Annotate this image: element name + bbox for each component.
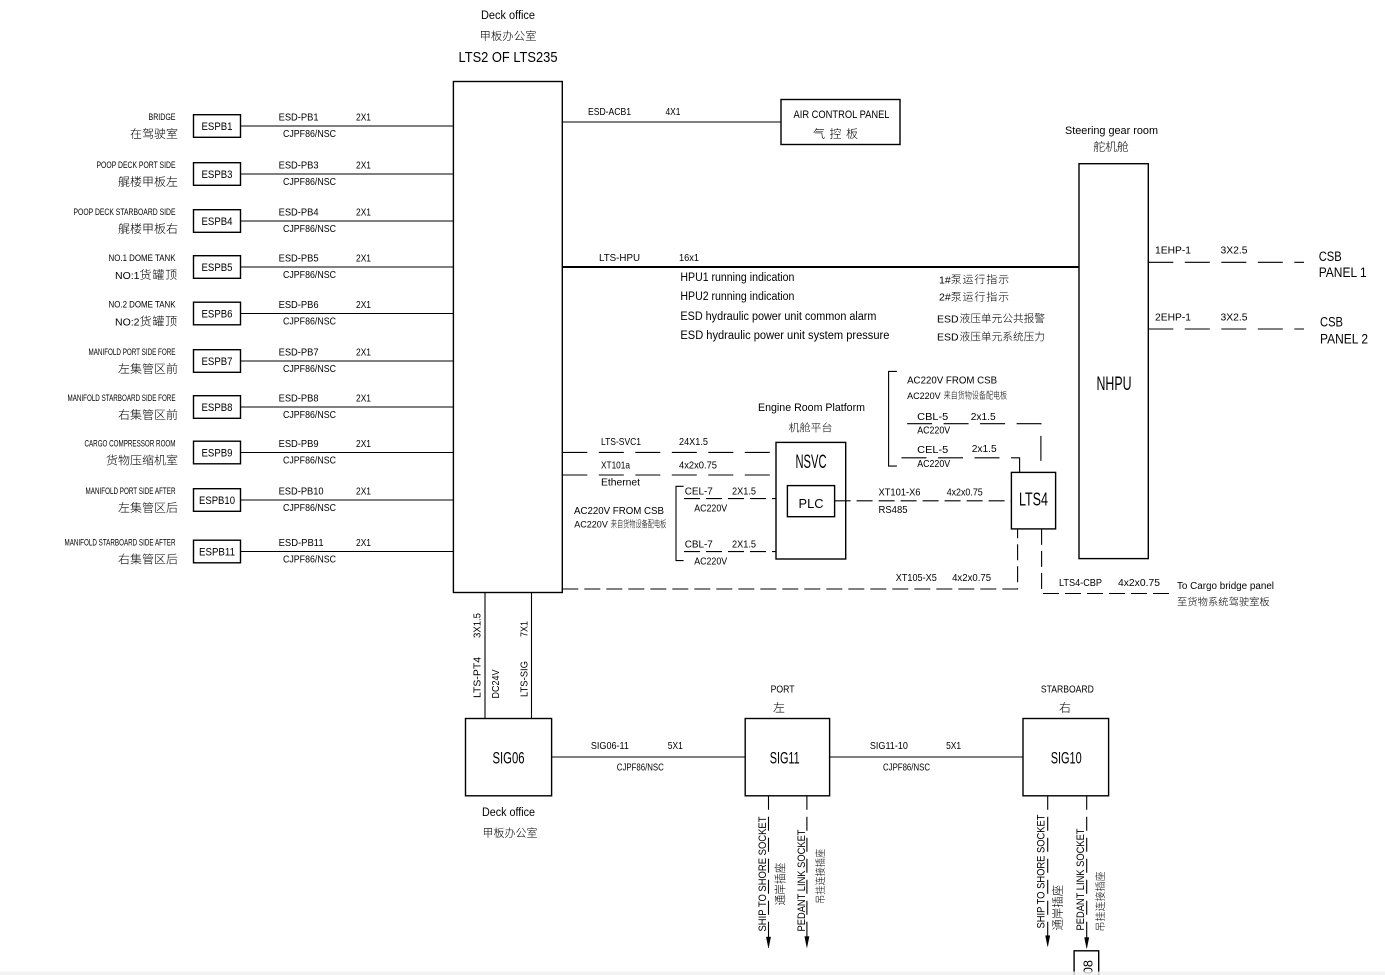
svg-text:ESD: ESD [937, 313, 959, 325]
junction box SIG11 [745, 719, 829, 796]
wire LTS4-CBP [1042, 529, 1173, 594]
label location BRIDGE [131, 112, 178, 139]
bracket AC220V group at NSVC [676, 486, 684, 560]
label cable ESD-PB7 2X1 CJPF86/NSC [279, 348, 372, 375]
junction box SIG10 [1023, 719, 1109, 796]
label HPU signal list [680, 272, 889, 342]
svg-text:LTS-HPU: LTS-HPU [599, 252, 640, 264]
svg-text:AC220V: AC220V [694, 503, 727, 515]
label PORT [771, 684, 795, 713]
wire ESD-ACB1 [562, 121, 781, 123]
svg-text:2x1.5: 2x1.5 [972, 443, 997, 455]
svg-text:CJPF86/NSC: CJPF86/NSC [283, 270, 336, 281]
label cable CBL-7 2X1.5 AC220V [685, 539, 756, 568]
svg-text:SHIP TO SHORE SOCKET: SHIP TO SHORE SOCKET [757, 816, 769, 931]
label cable XT105-X5 4x2x0.75 [896, 572, 991, 584]
label location MANIFOLD PORT SIDE AFTER [86, 486, 178, 513]
svg-text:CEL-7: CEL-7 [685, 486, 713, 498]
svg-text:SIG10: SIG10 [1051, 749, 1082, 767]
label cable 1EHP-1 3X2.5 [1155, 245, 1248, 257]
svg-text:CBL-7: CBL-7 [685, 539, 713, 551]
svg-text:ESPB9: ESPB9 [202, 448, 233, 460]
label location NO.1 DOME TANK [109, 253, 177, 282]
svg-text:ESD-PB3: ESD-PB3 [279, 161, 319, 172]
wire CBL-5 [907, 424, 1041, 473]
svg-text:NO:1: NO:1 [115, 270, 140, 282]
label location NO.2 DOME TANK [109, 300, 177, 329]
pushbutton ESPB9 [194, 441, 241, 464]
label location MANIFOLD STARBOARD SIDE AFTER [65, 538, 178, 565]
svg-text:ESD-PB7: ESD-PB7 [279, 348, 319, 359]
svg-text:MANIFOLD STARBOARD SIDE AFTER: MANIFOLD STARBOARD SIDE AFTER [65, 538, 176, 549]
wire ESD-PB4 [241, 220, 454, 222]
svg-text:DC24V: DC24V [490, 670, 502, 699]
pushbutton ESPB1 [194, 115, 241, 138]
svg-text:CJPF86/NSC: CJPF86/NSC [283, 410, 336, 421]
wire XT105-X5 [562, 529, 1017, 589]
svg-text:CJPF86/NSC: CJPF86/NSC [283, 555, 336, 566]
svg-text:ESD-PB10: ESD-PB10 [279, 487, 324, 498]
svg-text:2X1.5: 2X1.5 [732, 539, 756, 551]
label AC220V FROM CSB at LTS4 [907, 375, 1007, 401]
svg-text:4x2x0.75: 4x2x0.75 [947, 487, 983, 499]
svg-text:AC220V: AC220V [907, 391, 941, 401]
svg-text:To Cargo bridge panel: To Cargo bridge panel [1177, 581, 1274, 592]
svg-text:SHIP TO SHORE SOCKET: SHIP TO SHORE SOCKET [1036, 814, 1048, 928]
svg-text:4x2x0.75: 4x2x0.75 [1118, 577, 1160, 589]
svg-text:CJPF86/NSC: CJPF86/NSC [283, 503, 336, 514]
svg-text:LTS-SVC1: LTS-SVC1 [601, 436, 641, 448]
svg-text:AC220V: AC220V [694, 556, 727, 568]
svg-text:MANIFOLD PORT SIDE AFTER: MANIFOLD PORT SIDE AFTER [86, 486, 176, 497]
svg-text:ESD: ESD [937, 332, 959, 344]
label cable ESD-PB6 2X1 CJPF86/NSC [279, 300, 372, 327]
svg-text:POOP DECK STARBOARD SIDE: POOP DECK STARBOARD SIDE [74, 207, 176, 218]
label cable XT101-X6 4x2x0.75 RS485 [879, 487, 983, 517]
label cable ESD-PB1 2X1 CJPF86/NSC [279, 113, 372, 140]
label HPU signal list chinese [937, 274, 1044, 343]
label cable LTS-HPU 16x1 [599, 252, 699, 264]
label cable LTS-SVC1 24X1.5 [601, 436, 708, 448]
svg-text:HPU2 running indication: HPU2 running indication [680, 291, 794, 303]
pushbutton ESPB11 [194, 540, 241, 563]
label cable ESD-ACB1 4X1 [588, 106, 681, 118]
wire CBL-7 [684, 551, 776, 553]
svg-text:2x1.5: 2x1.5 [971, 411, 996, 423]
label Engine Room Platform [758, 402, 865, 432]
wire ship-to-shore socket at SIG11 [768, 796, 770, 928]
pushbutton ESPB5 [194, 256, 241, 279]
svg-text:ESPB8: ESPB8 [202, 402, 233, 414]
svg-text:CEL-5: CEL-5 [917, 444, 948, 456]
label Deck office LTS2 title [459, 10, 558, 66]
svg-text:XT101a: XT101a [601, 459, 630, 471]
svg-text:RS485: RS485 [879, 504, 908, 516]
bracket AC220V group at LTS4 [889, 371, 897, 466]
svg-text:PANEL 2: PANEL 2 [1320, 331, 1368, 346]
svg-text:NO:2: NO:2 [115, 317, 140, 329]
svg-text:NHPU: NHPU [1097, 374, 1132, 395]
label cable ESD-PB11 2X1 CJPF86/NSC [279, 538, 372, 565]
svg-text:ESD-PB4: ESD-PB4 [279, 208, 319, 219]
label cable ESD-PB4 2X1 CJPF86/NSC [279, 208, 372, 235]
svg-text:ESD-PB11: ESD-PB11 [279, 538, 324, 549]
svg-text:1#: 1# [939, 274, 951, 286]
svg-text:XT105-X5: XT105-X5 [896, 572, 937, 584]
label cable CEL-5 2x1.5 AC220V [917, 443, 997, 470]
label cable CEL-7 2X1.5 AC220V [685, 486, 756, 515]
svg-text:2X1: 2X1 [356, 300, 371, 311]
svg-text:2X1: 2X1 [356, 113, 371, 124]
wire CEL-5 [902, 458, 1020, 473]
svg-text:ESD hydraulic power unit syste: ESD hydraulic power unit system pressure [680, 330, 889, 342]
wire pedant link socket at SIG11 [806, 796, 808, 928]
wire ship-to-shore socket at SIG10 [1047, 796, 1049, 928]
svg-text:ESPB4: ESPB4 [202, 216, 233, 228]
svg-text:HPU1 running indication: HPU1 running indication [680, 272, 794, 284]
wire CEL-7 [684, 498, 776, 500]
svg-text:CSB: CSB [1320, 315, 1343, 330]
label cable ESD-PB5 2X1 CJPF86/NSC [279, 254, 372, 281]
svg-text:ESPB11: ESPB11 [199, 547, 235, 559]
svg-text:CBL-5: CBL-5 [917, 411, 948, 423]
svg-text:AC220V: AC220V [917, 425, 950, 437]
pushbutton ESPB6 [194, 302, 241, 325]
wire pedant link socket at SIG10 [1086, 796, 1088, 928]
svg-text:CJPF86/NSC: CJPF86/NSC [617, 762, 664, 774]
pushbutton ESPB3 [194, 163, 241, 186]
svg-text:ESPB1: ESPB1 [202, 121, 233, 133]
label PEDANT LINK SOCKET at SIG10 [1075, 828, 1105, 930]
svg-text:CJPF86/NSC: CJPF86/NSC [283, 224, 336, 235]
svg-text:NSVC: NSVC [796, 452, 827, 473]
svg-text:ESD-PB1: ESD-PB1 [279, 113, 319, 124]
svg-text:CJPF86/NSC: CJPF86/NSC [283, 177, 336, 188]
wire ESD-PB3 [241, 173, 454, 175]
svg-text:AC220V: AC220V [574, 520, 608, 530]
wire ESD-PB9 [241, 452, 454, 454]
wire ESD-PB7 [241, 360, 454, 362]
svg-text:ESPB10: ESPB10 [199, 495, 235, 507]
svg-text:AC220V FROM CSB: AC220V FROM CSB [574, 505, 664, 517]
wire SIG11-10 [830, 756, 1023, 758]
label cable ESD-PB10 2X1 CJPF86/NSC [279, 487, 372, 514]
label cable LTS-SIG 7X1 [519, 621, 531, 697]
wire 1EHP-1 [1148, 261, 1304, 263]
svg-text:2X1: 2X1 [356, 394, 371, 405]
svg-text:Deck office: Deck office [481, 10, 535, 22]
svg-text:ESD-PB6: ESD-PB6 [279, 300, 319, 311]
wire ESD-PB10 [241, 499, 454, 501]
svg-text:ESPB5: ESPB5 [202, 262, 233, 274]
bottom screenshot edge band [0, 972, 1385, 975]
svg-text:PANEL 1: PANEL 1 [1319, 265, 1367, 280]
svg-text:MANIFOLD STARBOARD SIDE FORE: MANIFOLD STARBOARD SIDE FORE [68, 393, 176, 404]
svg-text:PEDANT LINK SOCKET: PEDANT LINK SOCKET [1075, 828, 1087, 930]
node To Cargo bridge panel [1177, 581, 1274, 606]
svg-text:5X1: 5X1 [946, 740, 961, 752]
svg-text:3X2.5: 3X2.5 [1221, 311, 1248, 323]
svg-text:XT101-X6: XT101-X6 [879, 487, 921, 499]
svg-text:POOP DECK PORT SIDE: POOP DECK PORT SIDE [97, 160, 176, 171]
label cable CBL-5 2x1.5 AC220V [917, 411, 996, 437]
svg-text:MANIFOLD PORT SIDE FORE: MANIFOLD PORT SIDE FORE [89, 347, 176, 358]
svg-text:AC220V: AC220V [917, 458, 950, 470]
label location CARGO COMPRESSOR ROOM [85, 439, 178, 466]
wire ESD-PB11 [241, 551, 454, 553]
svg-text:AC220V FROM CSB: AC220V FROM CSB [907, 375, 997, 387]
label AC220V FROM CSB at NSVC [574, 505, 666, 530]
wire SIG06-11 [552, 756, 746, 758]
svg-text:LTS2 OF LTS235: LTS2 OF LTS235 [459, 49, 558, 66]
svg-text:PORT: PORT [771, 684, 795, 696]
svg-text:Steering gear room: Steering gear room [1065, 125, 1158, 137]
svg-text:3X1.5: 3X1.5 [472, 613, 484, 638]
svg-text:NO.1 DOME TANK: NO.1 DOME TANK [109, 253, 177, 264]
label Deck office at SIG06 [482, 807, 537, 838]
junction box SIG06 [466, 719, 552, 796]
svg-text:LTS-PT4: LTS-PT4 [472, 657, 484, 698]
module PLC [787, 486, 834, 517]
pushbutton ESPB7 [194, 350, 241, 373]
label location MANIFOLD STARBOARD SIDE FORE [68, 393, 178, 420]
cabinet NSVC [776, 442, 846, 559]
svg-text:5X1: 5X1 [668, 740, 683, 752]
label STARBOARD [1041, 684, 1094, 713]
svg-text:7X1: 7X1 [519, 621, 531, 637]
label cable LTS-PT4 3X1.5 DC24V [472, 613, 503, 699]
svg-text:LTS-SIG: LTS-SIG [519, 661, 531, 697]
svg-text:CJPF86/NSC: CJPF86/NSC [283, 317, 336, 328]
svg-text:ESPB3: ESPB3 [202, 169, 233, 181]
wire ESD-PB5 [241, 266, 454, 268]
svg-text:LTS4: LTS4 [1019, 490, 1048, 510]
svg-text:4X1: 4X1 [666, 106, 681, 118]
svg-text:2X1: 2X1 [356, 348, 371, 359]
svg-text:PLC: PLC [799, 496, 824, 511]
svg-text:SIG11: SIG11 [770, 749, 800, 767]
svg-text:Ethernet: Ethernet [601, 477, 640, 489]
wire ESD-PB6 [241, 313, 454, 315]
wire XT101-X6 RS485 [835, 500, 1012, 502]
svg-text:CARGO COMPRESSOR ROOM: CARGO COMPRESSOR ROOM [85, 439, 176, 450]
svg-text:SIG11-10: SIG11-10 [870, 740, 908, 752]
svg-text:2X1.5: 2X1.5 [732, 486, 756, 498]
label cable SIG06-11 5X1 CJPF86/NSC [591, 740, 683, 774]
svg-text:ESD-PB8: ESD-PB8 [279, 394, 319, 405]
label PEDANT LINK SOCKET at SIG11 [796, 829, 825, 931]
label cable SIG11-10 5X1 CJPF86/NSC [870, 740, 961, 774]
wire LTS-SVC1 [562, 451, 776, 453]
svg-text:4x2x0.75: 4x2x0.75 [679, 459, 717, 471]
label cable LTS4-CBP 4x2x0.75 [1059, 577, 1160, 589]
svg-text:CJPF86/NSC: CJPF86/NSC [283, 129, 336, 140]
label cable ESD-PB8 2X1 CJPF86/NSC [279, 394, 372, 421]
wire LTS-SIG [531, 593, 533, 719]
svg-text:NO.2 DOME TANK: NO.2 DOME TANK [109, 300, 177, 311]
svg-text:ESD-ACB1: ESD-ACB1 [588, 106, 631, 118]
label Steering gear room [1065, 125, 1158, 152]
svg-text:AIR CONTROL PANEL: AIR CONTROL PANEL [794, 109, 890, 121]
svg-text:2EHP-1: 2EHP-1 [1155, 311, 1191, 323]
svg-text:1EHP-1: 1EHP-1 [1155, 245, 1191, 257]
svg-text:ESPB6: ESPB6 [202, 309, 233, 321]
svg-text:ESD-PB5: ESD-PB5 [279, 254, 319, 265]
svg-text:3X2.5: 3X2.5 [1221, 245, 1248, 257]
svg-text:PEDANT LINK SOCKET: PEDANT LINK SOCKET [796, 829, 808, 931]
label SHIP TO SHORE SOCKET at SIG11 [757, 816, 785, 931]
label location MANIFOLD PORT SIDE FORE [89, 347, 178, 374]
svg-text:CJPF86/NSC: CJPF86/NSC [883, 762, 930, 774]
label cable XT101a 4x2x0.75 Ethernet [601, 459, 717, 488]
svg-text:Deck office: Deck office [482, 807, 535, 819]
svg-text:SIG06: SIG06 [493, 749, 525, 767]
label cable 2EHP-1 3X2.5 [1155, 311, 1248, 323]
label location POOP DECK STARBOARD SIDE [74, 207, 178, 234]
wire LTS-HPU [562, 266, 1079, 268]
wire 2EHP-1 [1148, 328, 1304, 330]
label cable ESD-PB9 2X1 CJPF86/NSC [279, 439, 372, 466]
cabinet NHPU [1079, 164, 1148, 559]
svg-text:Engine Room Platform: Engine Room Platform [758, 402, 865, 414]
svg-text:2X1: 2X1 [356, 439, 371, 450]
svg-text:CSB: CSB [1319, 249, 1342, 264]
pushbutton ESPB8 [194, 396, 241, 419]
svg-text:2X1: 2X1 [356, 161, 371, 172]
cabinet LTS2 [453, 82, 562, 593]
label cable ESD-PB3 2X1 CJPF86/NSC [279, 161, 372, 188]
svg-text:CJPF86/NSC: CJPF86/NSC [283, 456, 336, 467]
pushbutton ESPB4 [194, 210, 241, 233]
svg-text:LTS4-CBP: LTS4-CBP [1059, 577, 1102, 589]
label SHIP TO SHORE SOCKET at SIG10 [1036, 814, 1063, 930]
svg-text:2X1: 2X1 [356, 208, 371, 219]
svg-text:SIG06-11: SIG06-11 [591, 740, 629, 752]
junction box LTS4 [1011, 472, 1055, 529]
pushbutton ESPB10 [194, 489, 241, 512]
svg-text:2#: 2# [939, 292, 951, 304]
wire ESD-PB8 [241, 406, 454, 408]
svg-text:ESD-PB9: ESD-PB9 [279, 439, 319, 450]
svg-text:CJPF86/NSC: CJPF86/NSC [283, 364, 336, 375]
svg-text:BRIDGE: BRIDGE [149, 112, 176, 123]
svg-text:ESD hydraulic power unit commo: ESD hydraulic power unit common alarm [680, 311, 876, 323]
wire XT101a Ethernet [562, 474, 776, 476]
svg-text:24X1.5: 24X1.5 [679, 436, 708, 448]
svg-text:16x1: 16x1 [679, 252, 699, 264]
wire ESD-PB1 [241, 125, 454, 127]
svg-text:4x2x0.75: 4x2x0.75 [952, 572, 991, 584]
svg-text:STARBOARD: STARBOARD [1041, 684, 1094, 696]
panel AIR CONTROL PANEL [781, 100, 900, 145]
svg-text:2X1: 2X1 [356, 254, 371, 265]
node CSB PANEL 2 [1320, 315, 1368, 347]
junction box SIG08 [1074, 951, 1099, 975]
svg-text:2X1: 2X1 [356, 538, 371, 549]
svg-text:2X1: 2X1 [356, 487, 371, 498]
node CSB PANEL 1 [1319, 249, 1367, 280]
label location POOP DECK PORT SIDE [97, 160, 178, 187]
wire LTS-PT4 DC24V [484, 593, 486, 719]
svg-text:ESPB7: ESPB7 [202, 356, 233, 368]
